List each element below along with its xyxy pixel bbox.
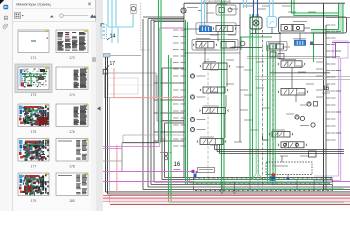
- svg-text:175: 175: [31, 130, 37, 134]
- svg-text:178: 178: [69, 164, 75, 168]
- svg-text:16: 16: [174, 162, 181, 168]
- svg-text:ACCUM CONTROL VALVE: ACCUM CONTROL VALVE: [203, 0, 231, 3]
- svg-text:171: 171: [31, 56, 37, 60]
- svg-text:176: 176: [69, 130, 75, 134]
- svg-text:17: 17: [110, 61, 116, 67]
- svg-text:179: 179: [31, 199, 37, 203]
- svg-text:14: 14: [110, 34, 116, 40]
- svg-text:177: 177: [31, 164, 37, 168]
- svg-text:174: 174: [69, 93, 75, 97]
- svg-text:180: 180: [69, 199, 75, 203]
- svg-text:Миниатюры страниц: Миниатюры страниц: [16, 3, 50, 7]
- svg-text:172: 172: [69, 56, 75, 60]
- svg-text:173: 173: [31, 93, 37, 97]
